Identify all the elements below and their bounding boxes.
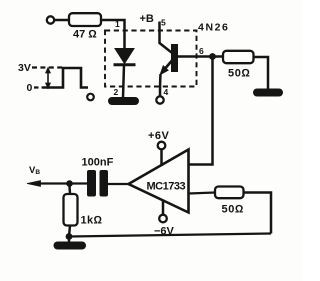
resistor R1 47ohm <box>69 13 101 26</box>
wire pin6 node down to op-amp upper output <box>189 58 213 165</box>
wire LED cathode (pin 2) to ground <box>123 65 124 98</box>
node feedback junction <box>66 233 73 240</box>
terminal pin 4 <box>156 96 163 103</box>
output arrow VB <box>27 181 41 187</box>
wire -6V to op-amp <box>162 200 165 215</box>
svg-text:1kΩ: 1kΩ <box>81 215 103 227</box>
terminal +6V <box>158 142 166 150</box>
svg-text:50Ω: 50Ω <box>222 204 244 216</box>
svg-text:+6V: +6V <box>148 130 170 142</box>
resistor R4 50ohm <box>215 187 244 199</box>
svg-text:VB: VB <box>29 165 40 176</box>
waveform dashed 3V level <box>32 66 62 68</box>
op-amp U2 MC1733 <box>129 150 189 213</box>
node input junction <box>66 180 73 187</box>
svg-text:6: 6 <box>199 46 204 56</box>
wire op-amp lower output to R4 <box>189 193 216 194</box>
terminal -6V <box>159 215 167 223</box>
wire R2 to ground <box>254 57 269 89</box>
input terminal <box>47 16 54 23</box>
wire R4 right and down <box>244 193 272 234</box>
wire VB line to capacitor <box>38 182 87 184</box>
node pin6 junction <box>209 53 216 60</box>
wire +B (pin 5) to collector <box>160 22 172 53</box>
wire emitter to pin 4 terminal <box>159 74 162 96</box>
wire +6V to op-amp <box>160 149 163 166</box>
wire input terminal to R1 <box>54 19 69 22</box>
svg-text:50Ω: 50Ω <box>228 68 250 80</box>
wire junction to R3 <box>68 186 71 194</box>
resistor R3 1k <box>64 194 78 226</box>
LED D1 <box>114 49 136 65</box>
resistor R2 50ohm <box>223 51 254 63</box>
waveform amplitude arrow <box>46 68 51 89</box>
ground (LED cathode) <box>108 97 139 105</box>
optocoupler U1 4N26 dashed outline <box>105 31 197 87</box>
waveform square pulse <box>43 68 88 88</box>
svg-text:100nF: 100nF <box>82 157 114 169</box>
ground (R3 / feedback) <box>54 242 87 250</box>
svg-text:4N26: 4N26 <box>198 22 230 34</box>
wire bottom feedback return <box>69 234 271 237</box>
svg-text:47 Ω: 47 Ω <box>73 29 97 41</box>
wire node to ground <box>68 237 71 242</box>
svg-text:0: 0 <box>27 82 33 94</box>
phototransistor Q1 <box>160 44 178 75</box>
wire base pin 6 to node <box>178 55 223 58</box>
svg-text:+B: +B <box>140 13 154 25</box>
svg-text:5: 5 <box>161 18 166 28</box>
ground (R2) <box>253 89 283 97</box>
svg-text:2: 2 <box>114 87 119 97</box>
waveform dashed 0 level <box>34 86 43 88</box>
svg-text:4: 4 <box>164 87 169 97</box>
wire R3 to feedback node <box>69 226 70 237</box>
waveform end terminal 0 <box>87 94 94 101</box>
svg-text:MC1733: MC1733 <box>147 181 186 193</box>
wire C1 to op-amp input <box>108 183 131 185</box>
svg-text:1: 1 <box>115 19 120 29</box>
svg-text:3V: 3V <box>18 62 31 74</box>
wire R1 to LED anode (pin 1) <box>101 20 125 49</box>
capacitor C1 100nF <box>87 170 108 197</box>
